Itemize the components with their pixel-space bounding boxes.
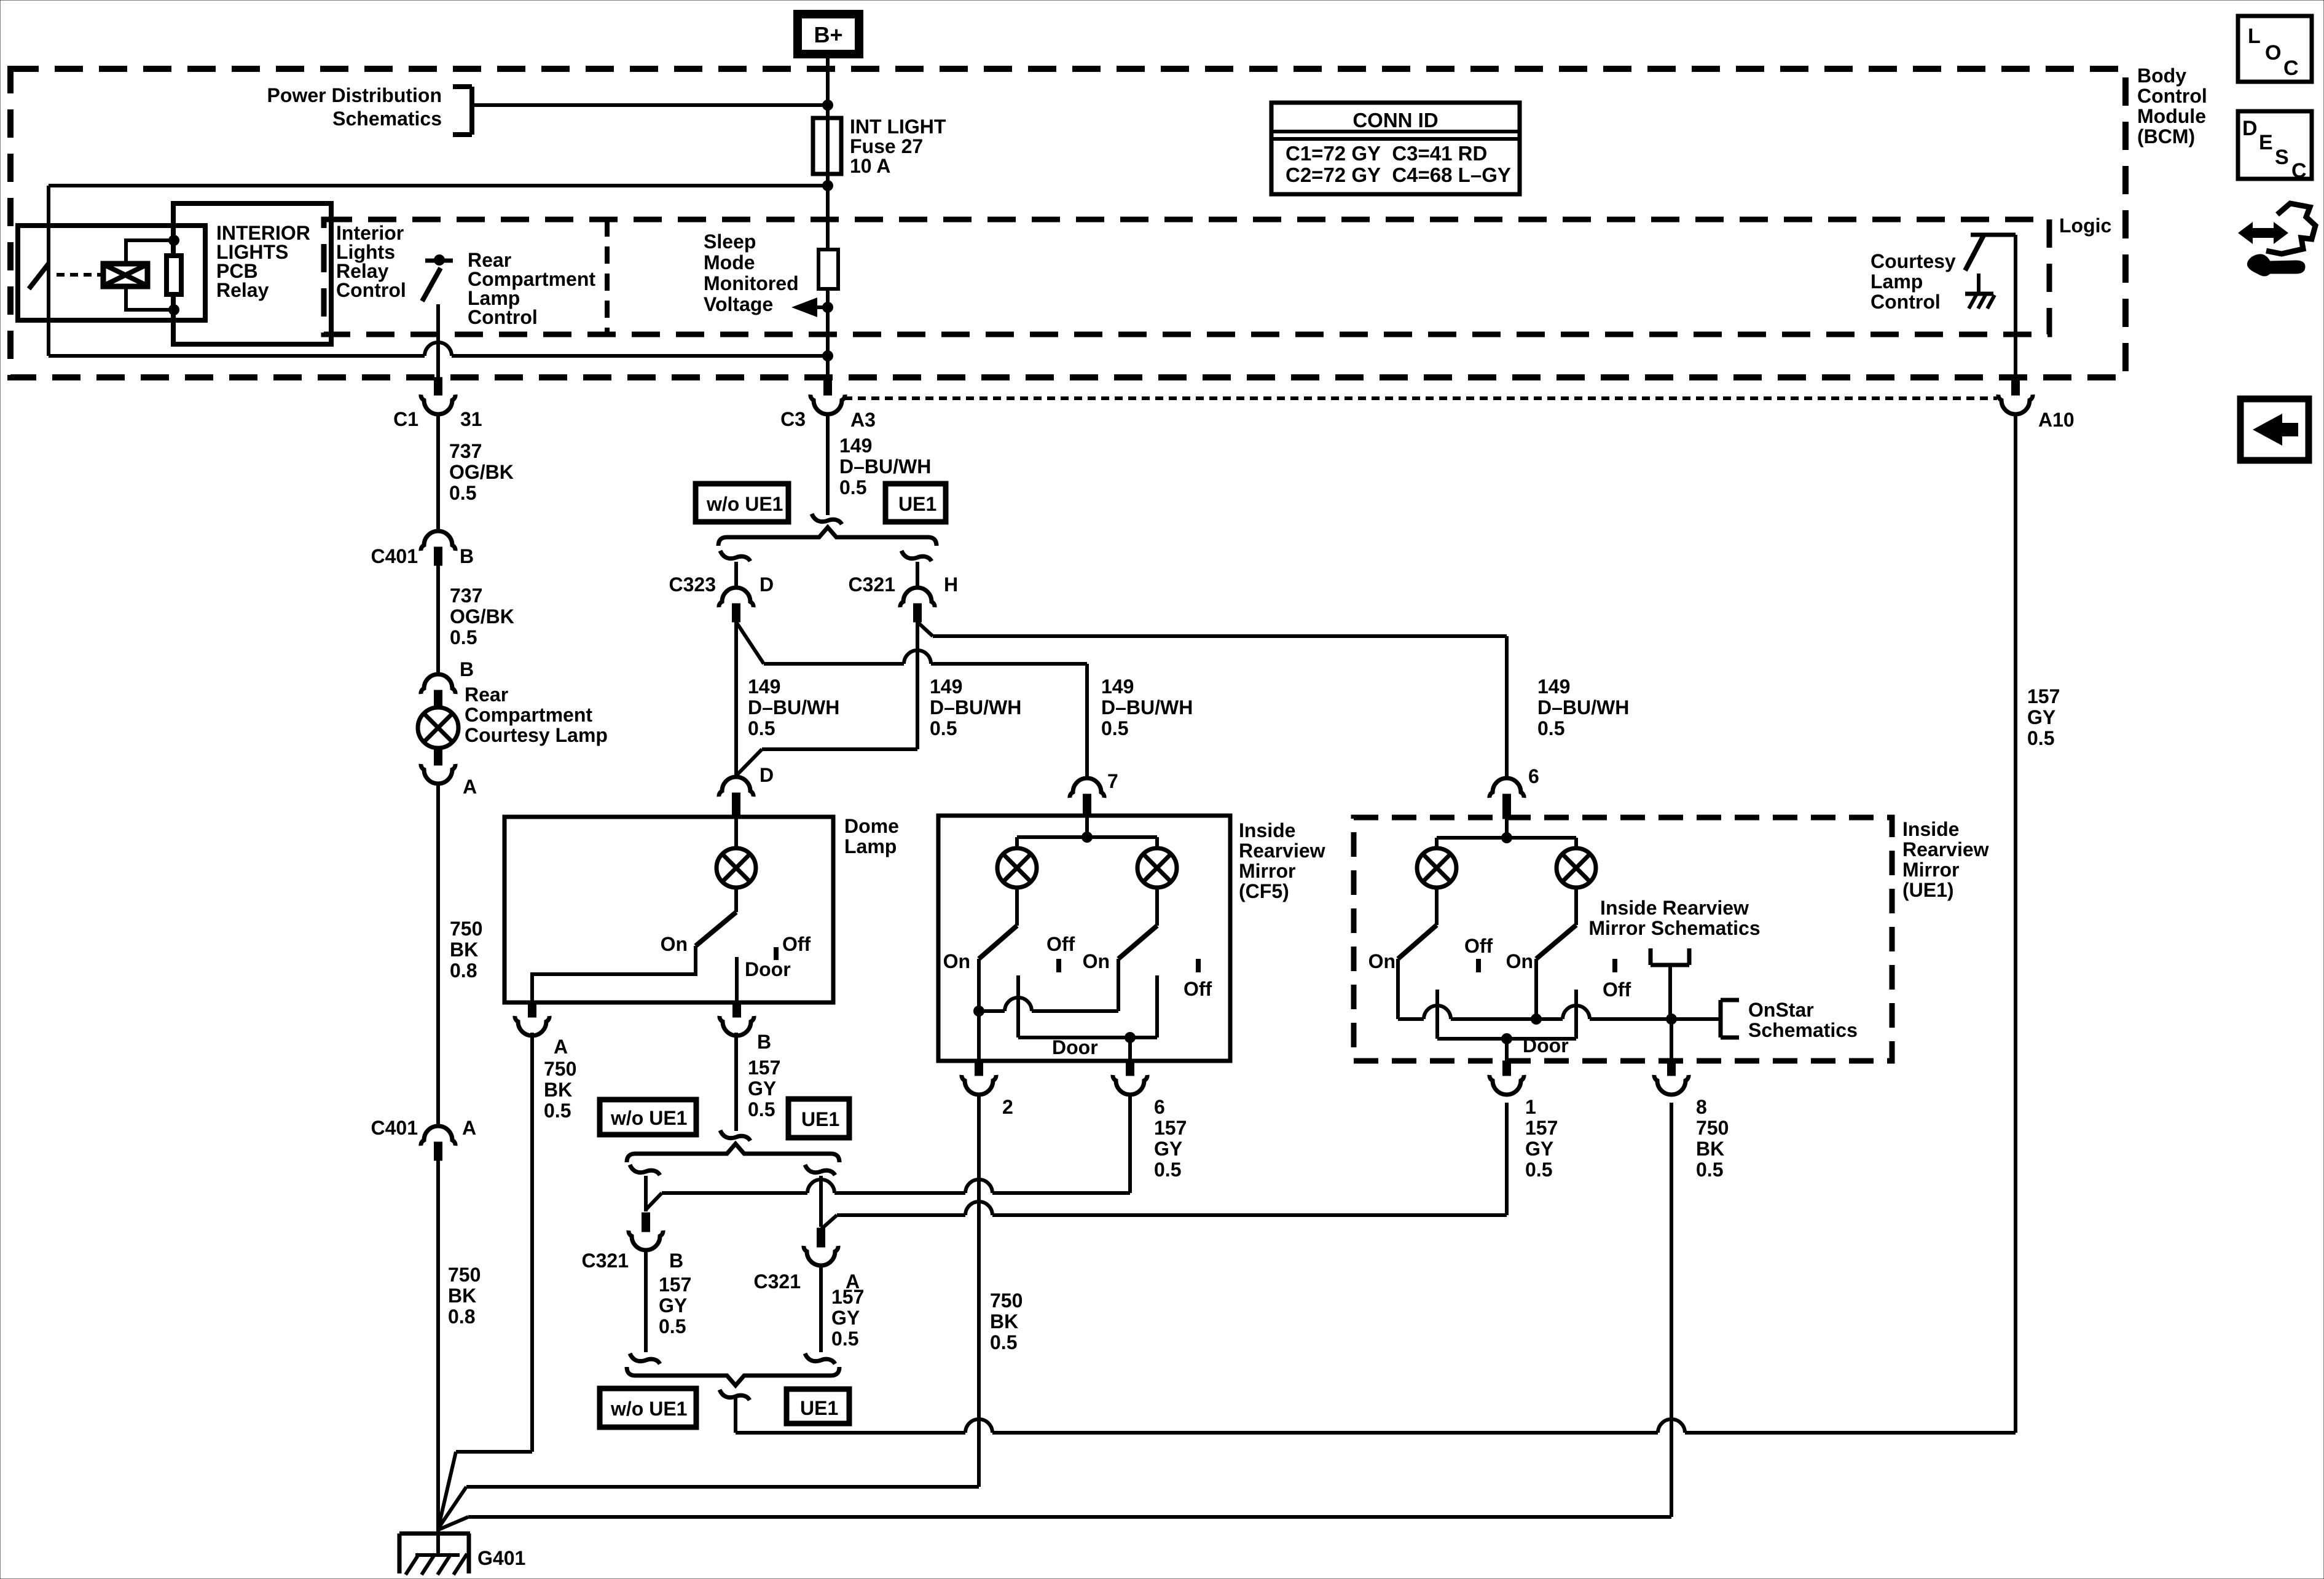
wire pin1 to C321-A xyxy=(837,1202,1507,1215)
svg-text:Mirror: Mirror xyxy=(1902,859,1959,881)
label Sleep Mode Monitored Voltage xyxy=(704,230,799,315)
UE1 left bulb xyxy=(1417,848,1456,888)
label C323 D xyxy=(669,573,774,596)
svg-text:0.5: 0.5 xyxy=(831,1328,858,1350)
wire pin2 down xyxy=(977,1095,981,1487)
split brace to C323 and C321 xyxy=(718,527,936,546)
label A at lamp xyxy=(463,776,477,798)
connector C321-H hook xyxy=(901,551,932,561)
UE1 door bar xyxy=(1437,1037,1576,1041)
connector C321-A hook xyxy=(805,1165,835,1175)
svg-text:Mirror: Mirror xyxy=(1239,860,1295,882)
wire pin8 down xyxy=(1670,1103,1673,1517)
dome lamp bulb xyxy=(716,848,756,888)
svg-text:CONN ID: CONN ID xyxy=(1352,109,1438,132)
svg-text:750: 750 xyxy=(990,1290,1023,1312)
svg-text:0.5: 0.5 xyxy=(1101,717,1128,739)
CF5 door post right xyxy=(1155,975,1159,1038)
icon back arrow box xyxy=(2240,399,2309,460)
wire C401 to lamp B xyxy=(436,565,440,674)
UE1 right post xyxy=(1534,959,1538,1019)
label 6 157 GY 0.5 xyxy=(1154,1096,1187,1181)
svg-text:31: 31 xyxy=(460,408,482,430)
svg-text:157: 157 xyxy=(748,1057,780,1079)
UE1 entry wire xyxy=(1501,819,1512,843)
svg-text:OnStar: OnStar xyxy=(1748,999,1814,1021)
wire lamp A down xyxy=(436,784,440,1127)
dome switch On post xyxy=(532,946,696,1002)
svg-text:7: 7 xyxy=(1107,770,1118,792)
label 149 D-BU/WH 0.5 at C3 xyxy=(839,435,931,498)
svg-text:Door: Door xyxy=(745,958,791,980)
svg-text:On: On xyxy=(661,933,688,955)
connector C3 socket xyxy=(811,395,845,414)
wire C321-B down xyxy=(644,1250,648,1352)
connector dome B pin xyxy=(733,1002,741,1017)
wire C1 to C401 xyxy=(436,414,440,532)
svg-text:On: On xyxy=(1368,950,1396,972)
wire to onstar bracket xyxy=(1671,1017,1719,1021)
svg-text:Lamp: Lamp xyxy=(844,835,897,857)
label 149 D-BU/WH 0.5 at pin6 xyxy=(1537,675,1629,739)
wire merge down xyxy=(734,1396,737,1433)
connector C321-B socket xyxy=(629,1231,663,1250)
svg-text:D–BU/WH: D–BU/WH xyxy=(1101,696,1193,719)
svg-text:BK: BK xyxy=(450,939,478,961)
svg-text:Schematics: Schematics xyxy=(332,108,442,130)
svg-text:A10: A10 xyxy=(2038,409,2075,431)
label Courtesy Lamp Control xyxy=(1871,250,1956,313)
label 157 GY 0.5 C321A xyxy=(831,1286,864,1350)
label Off CF5 right xyxy=(1184,978,1212,1000)
label B at lamp xyxy=(460,658,474,680)
svg-text:157: 157 xyxy=(831,1286,864,1308)
label 157 GY 0.5 C321B xyxy=(659,1274,691,1337)
label On UE1 right xyxy=(1506,950,1533,972)
wire pin6 to C321-B xyxy=(662,1179,1130,1193)
wire bottom bus relay to BCM xyxy=(49,342,828,356)
relay control dashed link xyxy=(57,273,102,277)
CF5 top bus xyxy=(1017,835,1157,839)
connector C401-B pin xyxy=(434,547,442,565)
svg-text:0.5: 0.5 xyxy=(544,1100,571,1122)
svg-text:750: 750 xyxy=(544,1058,576,1080)
svg-text:Courtesy Lamp: Courtesy Lamp xyxy=(465,724,608,746)
svg-text:149: 149 xyxy=(1101,675,1134,698)
svg-text:Lamp: Lamp xyxy=(1871,270,1923,293)
UE1 callout box xyxy=(885,484,946,522)
UE1 right bulb xyxy=(1557,848,1596,888)
svg-text:B+: B+ xyxy=(814,22,842,47)
svg-text:A: A xyxy=(462,1117,476,1139)
node onstar junction xyxy=(1666,1014,1677,1025)
svg-text:INT LIGHT: INT LIGHT xyxy=(850,116,946,138)
connector lamp A pin xyxy=(434,747,442,765)
CF5 entry wire xyxy=(1082,817,1093,843)
wire dome B down xyxy=(734,1033,738,1131)
Logic dashed box xyxy=(324,219,2049,334)
connector C321-A socket xyxy=(804,1246,838,1266)
svg-text:0.8: 0.8 xyxy=(448,1305,475,1328)
svg-text:A: A xyxy=(463,776,477,798)
svg-text:Inside: Inside xyxy=(1239,819,1295,841)
relay coil xyxy=(103,264,147,286)
OnStar schematics bracket xyxy=(1721,1000,1739,1038)
UE1 pin8 drop inside xyxy=(1670,1019,1673,1061)
CF5 right lamp to blade xyxy=(1155,887,1159,926)
connector dome D pin xyxy=(732,793,740,817)
label D at dome xyxy=(760,764,774,786)
svg-text:w/o UE1: w/o UE1 xyxy=(610,1107,687,1129)
connector C321-H pin xyxy=(914,604,922,622)
svg-text:C1: C1 xyxy=(393,408,418,430)
label On CF5 left xyxy=(943,950,970,972)
svg-text:Rearview: Rearview xyxy=(1239,840,1325,862)
UE1 callout box lower xyxy=(787,1389,849,1423)
node CF5 left post xyxy=(973,1006,984,1017)
sleep mode arrow xyxy=(791,297,828,317)
label 737 OG/BK 0.5 upper xyxy=(449,440,514,504)
svg-text:UE1: UE1 xyxy=(801,1108,839,1130)
CF5 cross link xyxy=(979,998,1118,1011)
connector C323 hook xyxy=(720,551,750,561)
connector CF5 pin2 pin xyxy=(975,1061,983,1076)
dome lamp wire to switch xyxy=(734,887,738,912)
svg-text:Control: Control xyxy=(2137,85,2207,107)
svg-text:C1=72 GY C3=41 RD: C1=72 GY C3=41 RD xyxy=(1286,142,1487,165)
svg-text:0.5: 0.5 xyxy=(659,1315,686,1337)
svg-text:8: 8 xyxy=(1696,1096,1707,1118)
wire pin6 drop xyxy=(1505,636,1509,779)
connector C321-H socket xyxy=(900,588,935,607)
connector lamp A socket xyxy=(421,764,455,784)
icon route and wrench xyxy=(2238,203,2315,276)
svg-text:750: 750 xyxy=(448,1264,481,1286)
svg-text:OG/BK: OG/BK xyxy=(449,461,514,483)
svg-text:C323: C323 xyxy=(669,573,716,596)
svg-text:Inside: Inside xyxy=(1902,818,1959,840)
svg-text:Off: Off xyxy=(1464,935,1493,957)
svg-text:0.5: 0.5 xyxy=(748,717,775,739)
INTERIOR LIGHTS PCB Relay label box xyxy=(173,203,331,344)
svg-text:(CF5): (CF5) xyxy=(1239,880,1289,902)
CF5 left post xyxy=(977,959,981,1061)
svg-text:0.5: 0.5 xyxy=(449,482,476,504)
wire C3 down xyxy=(826,414,830,515)
connector CF5 pin6 socket xyxy=(1113,1075,1147,1095)
connector C401-B socket xyxy=(421,531,455,551)
svg-text:Mirror Schematics: Mirror Schematics xyxy=(1588,917,1760,939)
svg-text:Courtesy: Courtesy xyxy=(1871,250,1956,272)
CF5 door post left xyxy=(1016,975,1020,1038)
courtesy switch ground xyxy=(1965,274,1995,309)
svg-text:Fuse 27: Fuse 27 xyxy=(850,135,923,157)
connector C3 pin xyxy=(824,377,832,395)
svg-text:C401: C401 xyxy=(371,1117,418,1139)
svg-text:1: 1 xyxy=(1525,1096,1536,1118)
label 737 OG/BK 0.5 lower xyxy=(450,585,514,648)
svg-text:Sleep: Sleep xyxy=(704,230,756,253)
svg-text:C3: C3 xyxy=(780,408,806,430)
svg-text:D–BU/WH: D–BU/WH xyxy=(748,696,839,719)
svg-text:10 A: 10 A xyxy=(850,155,890,177)
UE1 top bus xyxy=(1437,836,1576,840)
CF5 pin6 drop inside xyxy=(1128,1038,1132,1061)
svg-text:UE1: UE1 xyxy=(800,1397,838,1419)
svg-text:0.5: 0.5 xyxy=(748,1098,775,1120)
connector C401-A pin xyxy=(434,1142,442,1160)
svg-text:G401: G401 xyxy=(477,1547,525,1569)
svg-text:Door: Door xyxy=(1523,1034,1569,1057)
svg-text:BK: BK xyxy=(448,1285,476,1307)
label Rear Compartment Courtesy Lamp xyxy=(465,683,608,746)
label Door dome xyxy=(745,958,791,980)
UE1 right lamp to blade xyxy=(1574,887,1578,925)
CF5 right lamp drop xyxy=(1155,837,1159,849)
svg-text:0.5: 0.5 xyxy=(1154,1159,1181,1181)
connector C401-A socket xyxy=(421,1126,455,1146)
dome Off tick xyxy=(774,947,779,960)
label On CF5 right xyxy=(1083,950,1110,972)
CF5 left lamp to blade xyxy=(1015,887,1019,926)
wire diagonal into C321-A xyxy=(821,1215,837,1229)
label 157 GY 0.5 at A10 xyxy=(2027,685,2060,749)
wire pin8 ground diagonal xyxy=(438,1517,468,1530)
svg-text:149: 149 xyxy=(1537,675,1570,698)
svg-text:Module: Module xyxy=(2137,105,2206,127)
svg-text:L: L xyxy=(2248,25,2261,48)
svg-text:O: O xyxy=(2265,41,2281,65)
svg-text:Body: Body xyxy=(2137,65,2186,87)
wire end hook above split xyxy=(812,514,842,524)
connector C323 pin xyxy=(732,604,740,622)
svg-text:GY: GY xyxy=(659,1294,687,1317)
connector lamp B socket xyxy=(421,674,455,694)
svg-text:0.5: 0.5 xyxy=(1537,717,1564,739)
CF5 right blade On xyxy=(1118,926,1157,959)
split brace w/o UE1 xyxy=(627,1144,839,1162)
label Off dome xyxy=(782,933,811,955)
svg-text:GY: GY xyxy=(831,1307,860,1329)
svg-text:E: E xyxy=(2259,131,2273,154)
UE1 right blade On xyxy=(1536,925,1576,959)
wire C321 to dome D diagonal xyxy=(736,749,762,776)
label Door UE1 xyxy=(1523,1034,1569,1057)
wire dome A down xyxy=(530,1033,534,1452)
CF5 right post xyxy=(1117,959,1120,1011)
connector CF5 pin6 pin xyxy=(1126,1061,1134,1076)
svg-text:157: 157 xyxy=(1154,1117,1187,1139)
label B dome xyxy=(757,1031,771,1053)
svg-text:157: 157 xyxy=(2027,685,2060,707)
svg-text:BK: BK xyxy=(1696,1138,1724,1160)
connector UE1 pin6 pin xyxy=(1503,794,1511,819)
svg-text:S: S xyxy=(2275,146,2289,169)
fuse F27 INT LIGHT xyxy=(813,118,841,174)
ground G401 symbol xyxy=(399,1534,470,1575)
merge brace w/o UE1 xyxy=(627,1367,839,1385)
svg-text:B: B xyxy=(460,658,474,680)
wire diagonal into C321-B xyxy=(646,1193,662,1210)
connector UE1 pin1 pin xyxy=(1503,1061,1511,1076)
wire pin2 ground diagonal xyxy=(438,1487,466,1529)
svg-text:C401: C401 xyxy=(371,545,418,567)
wire fuse to sleep resistor xyxy=(826,174,830,250)
sleep mode resistor xyxy=(819,250,838,289)
svg-text:Rearview: Rearview xyxy=(1902,838,1989,860)
label Off CF5 mid xyxy=(1046,933,1075,955)
svg-text:750: 750 xyxy=(450,918,482,940)
connector dome B socket xyxy=(720,1016,754,1036)
svg-text:Compartment: Compartment xyxy=(465,704,592,726)
connector UE1 pin8 pin xyxy=(1668,1061,1676,1076)
svg-text:Power Distribution: Power Distribution xyxy=(267,84,442,106)
rear compartment courtesy lamp bulb xyxy=(418,707,458,748)
label Interior Lights Relay Control xyxy=(336,222,406,301)
svg-text:Off: Off xyxy=(1184,978,1212,1000)
connector CF5 pin2 socket xyxy=(962,1075,996,1095)
label OnStar Schematics xyxy=(1748,999,1858,1041)
node CF5 pin6 tap xyxy=(1125,1032,1136,1043)
svg-text:D–BU/WH: D–BU/WH xyxy=(1537,696,1629,719)
svg-text:B: B xyxy=(757,1031,771,1053)
BCM module dashed box xyxy=(10,69,2126,377)
wire C401-A to ground xyxy=(436,1160,440,1532)
svg-text:0.5: 0.5 xyxy=(990,1331,1017,1353)
label C1 31 xyxy=(393,408,482,430)
CF5 mirror box xyxy=(938,816,1230,1061)
wire C321-B stub xyxy=(644,1176,648,1211)
label 149 D-BU/WH 0.5 at pin7 xyxy=(1101,675,1193,739)
label 149 D-BU/WH 0.5 at C323 xyxy=(748,675,839,739)
svg-text:Monitored: Monitored xyxy=(704,272,799,294)
connector C323 socket xyxy=(719,588,753,607)
label 157 GY 0.5 dome B xyxy=(748,1057,780,1120)
svg-text:Rear: Rear xyxy=(465,683,508,706)
wire relay left vertical xyxy=(47,186,50,356)
svg-text:149: 149 xyxy=(930,675,962,698)
node relay coil bottom xyxy=(168,304,179,315)
connector dome A pin xyxy=(528,1002,536,1017)
label 7 xyxy=(1107,770,1118,792)
svg-text:w/o UE1: w/o UE1 xyxy=(610,1398,687,1420)
label On UE1 left xyxy=(1368,950,1396,972)
bracket power distribution xyxy=(453,87,472,135)
connector C323 wire stub xyxy=(734,562,738,589)
svg-text:Off: Off xyxy=(1603,979,1631,1001)
connector C1 socket xyxy=(421,395,455,414)
rear compartment lamp control switch xyxy=(422,254,453,301)
wire dome A ground diagonal xyxy=(438,1452,456,1529)
mirror schematics stub bracket xyxy=(1651,948,1689,965)
svg-text:Relay: Relay xyxy=(216,279,269,301)
relay switch contact xyxy=(47,248,50,264)
dotted connector face line xyxy=(844,396,1997,400)
wire C321 to dome D horizontal xyxy=(762,747,917,751)
UE1 cross link xyxy=(1398,1006,1671,1019)
label Off UE1 right xyxy=(1603,979,1631,1001)
UE1 door post left xyxy=(1435,990,1439,1039)
label Inside Rearview Mirror (CF5) xyxy=(1239,819,1325,902)
node UE1 pin1 tap xyxy=(1501,1033,1512,1044)
svg-text:GY: GY xyxy=(748,1077,776,1100)
label 750 BK 0.8 lower xyxy=(448,1264,481,1328)
wire switch to C1 xyxy=(436,304,440,377)
node sleep tap xyxy=(822,302,833,313)
label Dome Lamp xyxy=(844,815,899,857)
label Off UE1 mid xyxy=(1464,935,1493,957)
svg-text:Control: Control xyxy=(336,279,406,301)
wire courtesy to A10 xyxy=(2014,235,2017,377)
dome switch blade On xyxy=(696,912,736,946)
node power-distribution tap xyxy=(822,100,833,111)
svg-text:C321: C321 xyxy=(849,573,896,596)
UE1 left Off tick xyxy=(1476,959,1481,972)
connector CF5 pin7 pin xyxy=(1083,794,1091,817)
label Inside Rearview Mirror (UE1) xyxy=(1902,818,1989,901)
relay switch blade xyxy=(29,264,49,289)
svg-text:Off: Off xyxy=(1046,933,1075,955)
svg-text:Schematics: Schematics xyxy=(1748,1019,1858,1041)
svg-text:On: On xyxy=(943,950,970,972)
svg-text:737: 737 xyxy=(449,440,482,462)
svg-text:Dome: Dome xyxy=(844,815,899,837)
svg-text:A: A xyxy=(554,1036,568,1058)
wire power distribution schematics tap xyxy=(472,103,828,107)
connector A10 pin xyxy=(2012,377,2020,395)
dome Door post xyxy=(735,957,739,1002)
UE1 right Off tick xyxy=(1612,959,1617,972)
wire pin7 drop xyxy=(1085,664,1089,779)
UE1 left lamp drop xyxy=(1435,838,1439,849)
w/o UE1 callout box mid xyxy=(600,1100,696,1135)
wire 157 bus to A10 xyxy=(736,1419,2016,1433)
svg-text:BK: BK xyxy=(544,1079,572,1101)
UE1 door post right xyxy=(1574,990,1578,1039)
wire end hook C321-B xyxy=(630,1353,660,1364)
label A dome xyxy=(554,1036,568,1058)
connector CF5 pin7 socket xyxy=(1070,778,1104,798)
CF5 left bulb xyxy=(997,848,1037,888)
svg-text:D: D xyxy=(760,573,774,596)
UE1 pin1 drop inside xyxy=(1505,1039,1509,1061)
label INT LIGHT Fuse 27 10 A xyxy=(850,116,946,177)
wire B+ to fuse xyxy=(826,58,830,118)
svg-text:0.5: 0.5 xyxy=(930,717,957,739)
wire C321 down xyxy=(916,622,919,749)
label 149 D-BU/WH 0.5 at C321 xyxy=(930,675,1021,739)
CONN ID table xyxy=(1271,103,1520,194)
power feed B+ box xyxy=(798,14,859,54)
dome lamp box xyxy=(504,817,833,1002)
svg-text:OG/BK: OG/BK xyxy=(450,605,514,628)
node bottom bus at B+ wire xyxy=(822,350,833,361)
label 2 xyxy=(1002,1096,1013,1118)
svg-text:0.5: 0.5 xyxy=(839,476,866,498)
label Inside Rearview Mirror Schematics xyxy=(1588,897,1760,939)
svg-text:737: 737 xyxy=(450,585,482,607)
wire end hook below merge xyxy=(720,1390,750,1400)
CF5 right bulb xyxy=(1137,848,1177,888)
wire 149 bus to UE1 pin6 xyxy=(933,634,1507,638)
svg-text:D: D xyxy=(760,764,774,786)
svg-text:C2=72 GY C4=68 L–GY: C2=72 GY C4=68 L–GY xyxy=(1286,163,1511,186)
svg-text:149: 149 xyxy=(839,435,872,457)
UE1 right lamp drop xyxy=(1574,838,1578,849)
svg-text:6: 6 xyxy=(1528,765,1539,787)
svg-text:Control: Control xyxy=(468,306,538,328)
label Rear Compartment Lamp Control xyxy=(468,249,595,328)
